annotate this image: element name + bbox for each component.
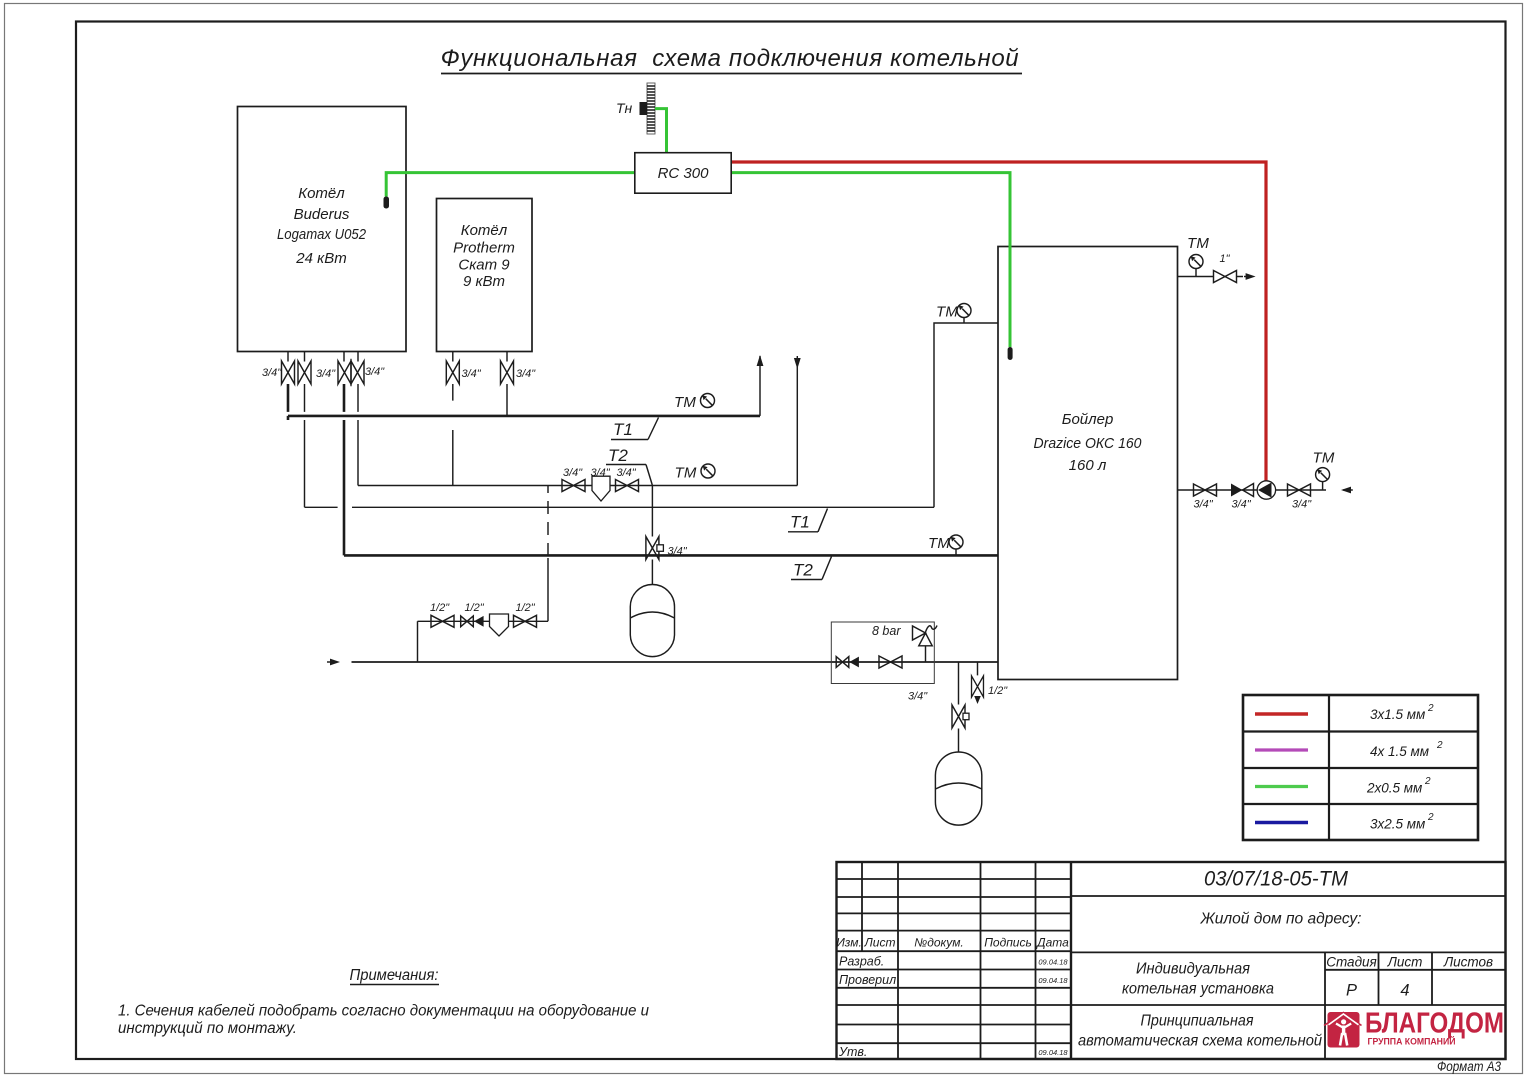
svg-text:3/4": 3/4" [262,367,282,379]
svg-text:1. Сечения кабелей подобрать с: 1. Сечения кабелей подобрать согласно до… [118,1003,649,1020]
svg-text:3/4": 3/4" [1194,499,1214,511]
svg-text:8 bar: 8 bar [872,624,901,638]
svg-text:Drazice ОКС 160: Drazice ОКС 160 [1034,435,1143,452]
svg-text:БЛАГОДОМ: БЛАГОДОМ [1365,1008,1504,1040]
svg-text:Стадия: Стадия [1326,955,1377,970]
svg-text:Листов: Листов [1443,955,1493,970]
svg-text:Buderus: Buderus [294,206,350,223]
svg-text:Т2: Т2 [793,561,813,580]
svg-text:3/4": 3/4" [668,546,688,558]
svg-text:3х1.5 мм: 3х1.5 мм [1370,707,1425,722]
svg-text:2х0.5 мм: 2х0.5 мм [1366,781,1422,796]
svg-text:1": 1" [1220,253,1231,265]
svg-text:Котёл: Котёл [298,185,345,202]
svg-text:ТМ: ТМ [675,465,697,482]
svg-text:Дата: Дата [1035,936,1069,950]
svg-text:Logamax U052: Logamax U052 [277,226,367,243]
svg-text:Утв.: Утв. [838,1045,867,1059]
svg-text:24 кВт: 24 кВт [295,250,346,267]
svg-text:1/2": 1/2" [516,602,536,614]
svg-text:4х 1.5 мм: 4х 1.5 мм [1370,744,1429,759]
svg-text:Лист: Лист [1387,955,1423,970]
svg-text:Принципиальная: Принципиальная [1141,1013,1254,1030]
svg-text:3/4": 3/4" [516,368,536,380]
svg-text:RC 300: RC 300 [658,165,710,182]
svg-text:Котёл: Котёл [461,222,508,239]
svg-text:Скат 9: Скат 9 [458,257,510,274]
svg-text:09.04.18: 09.04.18 [1038,958,1068,967]
svg-text:Индивидуальная: Индивидуальная [1136,961,1250,978]
svg-text:Бойлер: Бойлер [1062,411,1114,428]
svg-text:3/4": 3/4" [365,366,385,378]
svg-text:ТМ: ТМ [928,535,950,552]
svg-text:2: 2 [1436,740,1443,751]
svg-text:160 л: 160 л [1069,457,1107,474]
svg-text:Protherm: Protherm [453,240,515,257]
svg-text:ТМ: ТМ [1313,450,1335,467]
svg-text:3/4": 3/4" [462,368,482,380]
svg-text:09.04.18: 09.04.18 [1038,976,1068,985]
svg-text:1/2": 1/2" [430,602,450,614]
svg-text:инструкций по монтажу.: инструкций по монтажу. [118,1020,297,1037]
svg-text:ГРУППА КОМПАНИЙ: ГРУППА КОМПАНИЙ [1368,1036,1456,1048]
svg-text:3/4": 3/4" [1292,499,1312,511]
svg-text:3/4": 3/4" [908,691,928,703]
svg-text:ТМ: ТМ [674,394,696,411]
svg-text:3/4": 3/4" [563,467,583,479]
svg-text:№докум.: №докум. [914,936,964,950]
svg-text:Т2: Т2 [608,446,628,465]
svg-text:3/4": 3/4" [1232,499,1252,511]
svg-text:Тн: Тн [616,100,633,116]
svg-text:Подпись: Подпись [984,936,1032,950]
svg-text:1/2": 1/2" [465,602,485,614]
svg-text:4: 4 [1400,982,1409,1000]
svg-text:2: 2 [1427,703,1434,714]
svg-text:3/4": 3/4" [591,467,611,479]
svg-text:Изм.: Изм. [836,936,862,950]
svg-text:03/07/18-05-ТМ: 03/07/18-05-ТМ [1204,868,1348,891]
svg-text:3х2.5 мм: 3х2.5 мм [1370,817,1425,832]
svg-text:ТМ: ТМ [936,304,958,321]
svg-text:3/4": 3/4" [316,368,336,380]
svg-text:Примечания:: Примечания: [350,967,439,984]
svg-text:Т1: Т1 [790,513,810,532]
svg-text:9 кВт: 9 кВт [463,273,505,290]
svg-text:Р: Р [1346,982,1357,1000]
svg-text:2: 2 [1424,776,1431,787]
svg-text:ТМ: ТМ [1187,235,1209,252]
svg-text:Формат А3: Формат А3 [1437,1059,1501,1074]
svg-text:котельная установка: котельная установка [1122,981,1274,998]
svg-text:Лист: Лист [864,936,896,950]
svg-text:Т1: Т1 [613,420,633,439]
svg-text:09.04.18: 09.04.18 [1038,1048,1068,1057]
svg-text:Функциональная схема подключе: Функциональная схема подключения котельн… [441,45,1020,72]
svg-text:3/4": 3/4" [617,467,637,479]
svg-text:2: 2 [1427,812,1434,823]
svg-text:Проверил: Проверил [839,973,896,987]
svg-text:Жилой дом по адресу:: Жилой дом по адресу: [1200,911,1362,928]
svg-text:Разраб.: Разраб. [839,955,884,969]
svg-text:1/2": 1/2" [988,685,1008,697]
svg-text:автоматическая схема котельной: автоматическая схема котельной [1078,1033,1322,1050]
